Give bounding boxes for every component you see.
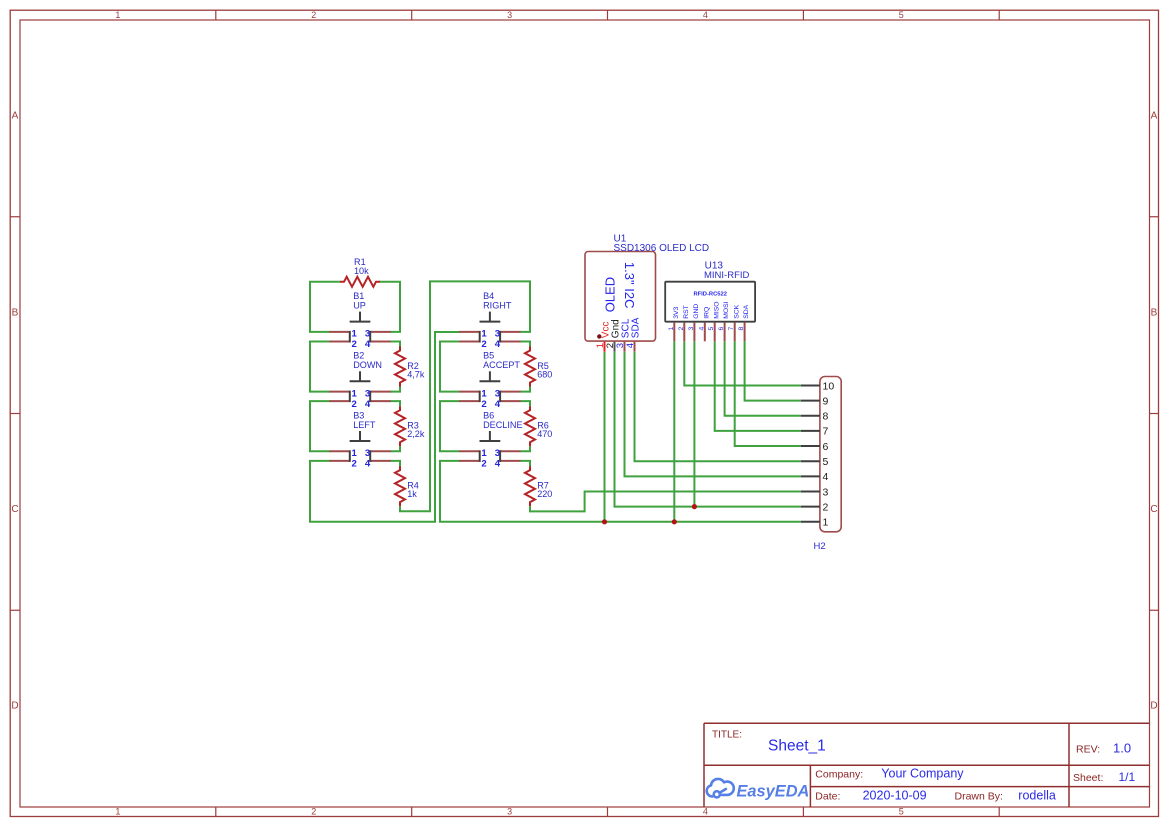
svg-text:1: 1 bbox=[351, 329, 357, 340]
svg-text:LEFT: LEFT bbox=[353, 420, 376, 430]
svg-text:B3: B3 bbox=[353, 410, 364, 420]
svg-text:4: 4 bbox=[495, 339, 501, 350]
svg-text:8: 8 bbox=[823, 411, 829, 423]
svg-text:4,7k: 4,7k bbox=[407, 369, 425, 379]
svg-text:5: 5 bbox=[899, 807, 904, 817]
svg-text:6: 6 bbox=[718, 327, 725, 331]
svg-text:1: 1 bbox=[481, 448, 487, 459]
svg-text:1.3" I2C: 1.3" I2C bbox=[622, 262, 637, 309]
svg-text:3: 3 bbox=[495, 329, 500, 340]
svg-text:MINI-RFID: MINI-RFID bbox=[704, 270, 750, 281]
svg-text:1/1: 1/1 bbox=[1119, 770, 1136, 784]
svg-text:RST: RST bbox=[683, 305, 690, 319]
svg-text:3: 3 bbox=[823, 486, 829, 498]
svg-text:H2: H2 bbox=[814, 541, 826, 552]
svg-text:MOSI: MOSI bbox=[723, 301, 730, 318]
svg-text:IRQ: IRQ bbox=[703, 307, 710, 319]
svg-text:3V3: 3V3 bbox=[673, 306, 680, 318]
svg-text:TITLE:: TITLE: bbox=[712, 729, 742, 740]
svg-text:470: 470 bbox=[537, 429, 552, 439]
svg-text:2020-10-09: 2020-10-09 bbox=[863, 788, 927, 802]
svg-text:4: 4 bbox=[625, 343, 636, 348]
svg-text:1: 1 bbox=[481, 388, 487, 399]
svg-text:2: 2 bbox=[351, 459, 356, 470]
svg-text:4: 4 bbox=[703, 807, 708, 817]
svg-text:8: 8 bbox=[738, 327, 745, 331]
svg-text:7: 7 bbox=[823, 426, 829, 438]
svg-text:A: A bbox=[12, 111, 19, 122]
svg-text:1: 1 bbox=[351, 448, 357, 459]
svg-text:ACCEPT: ACCEPT bbox=[483, 360, 520, 370]
svg-text:D: D bbox=[11, 700, 18, 711]
svg-text:DOWN: DOWN bbox=[353, 360, 382, 370]
svg-text:1: 1 bbox=[481, 329, 487, 340]
svg-text:1: 1 bbox=[351, 388, 357, 399]
svg-text:3: 3 bbox=[688, 327, 695, 331]
svg-text:REV:: REV: bbox=[1076, 744, 1100, 756]
svg-text:2: 2 bbox=[823, 501, 829, 513]
svg-text:2: 2 bbox=[351, 339, 356, 350]
svg-text:SCK: SCK bbox=[733, 304, 740, 318]
svg-text:3: 3 bbox=[365, 329, 370, 340]
svg-text:A: A bbox=[1151, 111, 1158, 122]
svg-text:9: 9 bbox=[823, 395, 829, 407]
svg-text:Your Company: Your Company bbox=[881, 767, 964, 781]
svg-text:1: 1 bbox=[668, 327, 675, 331]
svg-text:MISO: MISO bbox=[713, 301, 720, 318]
svg-text:10: 10 bbox=[823, 380, 835, 392]
svg-text:SDA: SDA bbox=[743, 304, 750, 318]
svg-text:DECLINE: DECLINE bbox=[483, 420, 522, 430]
svg-text:2: 2 bbox=[481, 399, 486, 410]
svg-text:C: C bbox=[11, 504, 18, 515]
svg-text:EasyEDA: EasyEDA bbox=[737, 783, 810, 801]
svg-text:Drawn By:: Drawn By: bbox=[955, 790, 1003, 802]
svg-text:2: 2 bbox=[481, 339, 486, 350]
svg-text:Date:: Date: bbox=[815, 790, 840, 802]
svg-text:B6: B6 bbox=[483, 410, 494, 420]
svg-text:B5: B5 bbox=[483, 351, 494, 361]
svg-text:3: 3 bbox=[495, 448, 500, 459]
svg-text:3: 3 bbox=[507, 807, 512, 817]
svg-text:3: 3 bbox=[365, 388, 370, 399]
svg-text:OLED: OLED bbox=[603, 277, 618, 312]
svg-text:RFID-RC522: RFID-RC522 bbox=[693, 292, 727, 298]
svg-text:UP: UP bbox=[353, 301, 366, 311]
svg-text:2: 2 bbox=[311, 10, 316, 20]
svg-text:1: 1 bbox=[115, 807, 120, 817]
svg-text:rodella: rodella bbox=[1018, 788, 1056, 802]
svg-text:1k: 1k bbox=[407, 489, 417, 499]
svg-text:2,2k: 2,2k bbox=[407, 429, 425, 439]
svg-text:3: 3 bbox=[365, 448, 370, 459]
svg-text:Company:: Company: bbox=[815, 769, 863, 781]
svg-text:6: 6 bbox=[823, 441, 829, 453]
svg-text:4: 4 bbox=[703, 10, 708, 20]
svg-text:D: D bbox=[1150, 700, 1157, 711]
svg-text:3: 3 bbox=[507, 10, 512, 20]
svg-text:B2: B2 bbox=[353, 351, 364, 361]
svg-text:SSD1306 OLED LCD: SSD1306 OLED LCD bbox=[614, 243, 710, 254]
svg-text:1.0: 1.0 bbox=[1113, 741, 1131, 756]
svg-text:5: 5 bbox=[899, 10, 904, 20]
svg-text:4: 4 bbox=[495, 459, 501, 470]
svg-text:2: 2 bbox=[351, 399, 356, 410]
svg-text:4: 4 bbox=[365, 339, 371, 350]
svg-text:B: B bbox=[1151, 307, 1158, 318]
svg-text:10k: 10k bbox=[354, 266, 369, 276]
svg-text:2: 2 bbox=[678, 327, 685, 331]
svg-text:4: 4 bbox=[495, 399, 501, 410]
svg-text:5: 5 bbox=[823, 456, 829, 468]
svg-text:C: C bbox=[1150, 504, 1157, 515]
svg-text:4: 4 bbox=[365, 399, 371, 410]
svg-text:B4: B4 bbox=[483, 291, 494, 301]
svg-text:GND: GND bbox=[693, 304, 700, 319]
svg-text:B1: B1 bbox=[353, 291, 364, 301]
svg-text:3: 3 bbox=[495, 388, 500, 399]
svg-text:4: 4 bbox=[365, 459, 371, 470]
svg-text:1: 1 bbox=[115, 10, 120, 20]
svg-text:2: 2 bbox=[481, 459, 486, 470]
svg-text:7: 7 bbox=[728, 327, 735, 331]
svg-text:RIGHT: RIGHT bbox=[483, 301, 512, 311]
svg-text:B: B bbox=[12, 307, 19, 318]
svg-text:2: 2 bbox=[311, 807, 316, 817]
svg-text:680: 680 bbox=[537, 369, 552, 379]
svg-text:Sheet_1: Sheet_1 bbox=[768, 737, 826, 754]
svg-text:4: 4 bbox=[698, 327, 705, 331]
svg-text:220: 220 bbox=[537, 489, 552, 499]
svg-text:SDA: SDA bbox=[631, 317, 642, 338]
svg-text:4: 4 bbox=[823, 471, 829, 483]
svg-text:Sheet:: Sheet: bbox=[1073, 772, 1103, 784]
svg-text:1: 1 bbox=[823, 517, 829, 529]
svg-text:5: 5 bbox=[708, 327, 715, 331]
